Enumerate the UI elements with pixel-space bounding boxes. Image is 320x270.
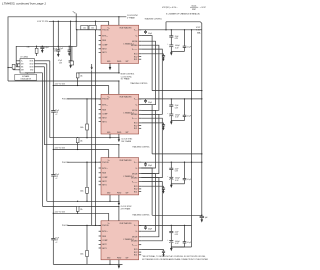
capacitor CRC ch1	[163, 54, 165, 56]
ground C30	[201, 219, 204, 222]
svg-text:0.1µF: 0.1µF	[187, 46, 191, 48]
junction dots U1 vout wire	[171, 29, 172, 30]
svg-text:SET1: SET1	[102, 185, 106, 187]
svg-text:NOT NEEDED FOR LOW IMPEDANCE P: NOT NEEDED FOR LOW IMPEDANCE PLANE CONNE…	[142, 258, 208, 261]
wire U1 GND stub	[109, 63, 111, 67]
junction dot R22 rail	[77, 149, 78, 150]
ground CRC ch4	[162, 254, 164, 257]
wire U2 left pin stubs	[99, 98, 101, 100]
wire R13 top	[71, 46, 73, 61]
svg-text:TRACKING CONTROL: TRACKING CONTROL	[145, 18, 163, 21]
wire cascade d ch3	[141, 182, 162, 241]
svg-text:RC2: RC2	[134, 56, 138, 58]
svg-text:SET1: SET1	[102, 121, 106, 123]
svg-text:VOUT: VOUT	[134, 162, 138, 164]
resistor R12 body	[36, 46, 38, 48]
capacitor COUTB ch2	[169, 113, 173, 115]
svg-text:RSET: RSET	[192, 9, 196, 11]
svg-text:SET2: SET2	[102, 181, 106, 183]
svg-text:25V: 25V	[59, 62, 63, 64]
svg-text:22µF: 22µF	[175, 232, 179, 234]
wire cascade c ch3	[141, 178, 159, 237]
svg-text:VB: VB	[135, 231, 137, 233]
wire U1 VOUT to bus	[139, 29, 202, 31]
wire cascade c ch2	[141, 114, 159, 173]
junction dots on VIN bus	[53, 21, 54, 22]
svg-text:SET2: SET2	[102, 244, 106, 246]
capacitor COUTC ch2	[184, 99, 186, 115]
junction dot sense ch3	[201, 153, 202, 154]
junction dot R23 rail	[77, 213, 78, 214]
wire U4 right pin stubs	[139, 224, 142, 226]
junction dots PGOOD ch2	[95, 98, 96, 99]
junction dots clock line ch4	[86, 201, 87, 202]
capacitor CRC ch4	[163, 249, 165, 251]
ground U1	[109, 67, 112, 70]
junction dot ch1 sense riser	[165, 29, 166, 30]
wire clock riser ch3	[49, 61, 51, 138]
resistor R1b 10k	[89, 25, 96, 29]
svg-text:SET1: SET1	[102, 52, 106, 54]
capacitor COUTC ch3	[184, 162, 186, 178]
capacitor COUTA ch1	[170, 30, 172, 36]
svg-text:RC2: RC2	[134, 189, 138, 191]
svg-text:6.3V: 6.3V	[175, 107, 179, 109]
svg-text:MODE0: MODE0	[131, 114, 137, 116]
junction dot track line ch3	[118, 144, 119, 145]
svg-text:VIN: VIN	[73, 12, 76, 15]
svg-text:SW*: SW*	[126, 132, 129, 134]
capacitor COUTB ch3	[169, 176, 173, 178]
svg-text:SW*: SW*	[126, 258, 129, 260]
capacitor COUTA ch3	[170, 162, 172, 168]
svg-text:RC2: RC2	[134, 252, 138, 254]
svg-text:RC3: RC3	[134, 186, 138, 188]
svg-text:10k: 10k	[83, 27, 86, 29]
wire VOSNS bus x191.5	[191, 30, 193, 247]
capacitor CIN ch4 on riser	[51, 238, 56, 241]
wire input rail ch3	[53, 149, 108, 151]
svg-text:TRACKING CONTROL: TRACKING CONTROL	[132, 213, 150, 216]
junction dot R12	[36, 46, 37, 47]
svg-text:22µF: 22µF	[55, 174, 59, 176]
svg-text:VB: VB	[135, 105, 137, 107]
svg-text:TRACKING CONTROL: TRACKING CONTROL	[132, 145, 150, 148]
ground U3	[118, 203, 120, 206]
svg-text:25V: 25V	[55, 112, 59, 114]
junction dot clock line ch1	[118, 16, 119, 17]
wire U3 GND stub	[109, 195, 111, 201]
wire U3 left pin stubs	[99, 161, 101, 163]
wire U5 V+ loop	[16, 46, 77, 67]
svg-text:22µF: 22µF	[55, 238, 59, 240]
wire COUTC join ch4	[171, 246, 184, 248]
svg-text:OUT2: OUT2	[29, 63, 33, 65]
svg-text:VOUT: VOUT	[134, 30, 138, 32]
capacitor C100p ch2	[145, 99, 147, 101]
wire VOUT bus right	[166, 22, 202, 216]
svg-text:+: +	[167, 44, 168, 46]
resistor R23 15k ch4	[76, 206, 79, 211]
svg-text:0° PHASE: 0° PHASE	[127, 16, 136, 19]
svg-text:460µF: 460µF	[175, 114, 180, 116]
svg-text:RC1: RC1	[134, 191, 138, 193]
svg-text:MODE0: MODE0	[131, 177, 137, 179]
wire cascade b ch2	[141, 110, 155, 168]
svg-text:VB: VB	[135, 35, 137, 37]
wire cascade a ch1	[141, 36, 152, 91]
svg-text:SET2: SET2	[102, 49, 106, 51]
wire U5 OUT1 to ch3 clock riser	[34, 60, 49, 62]
svg-text:MODE: MODE	[132, 110, 138, 112]
wire V+ vertical from PGOOD line	[76, 30, 78, 47]
resistor R21 15k ch2	[76, 73, 79, 78]
capacitor CIN ch2 on riser	[51, 110, 56, 113]
svg-text:6.3V: 6.3V	[175, 171, 179, 173]
svg-text:+: +	[167, 176, 168, 178]
svg-text:180° PHASE: 180° PHASE	[121, 140, 132, 143]
svg-text:N = NUMBER OF CHANNELS IN PARA: N = NUMBER OF CHANNELS IN PARALLEL	[166, 13, 200, 16]
resistor R1a 10k	[81, 25, 88, 29]
svg-text:RC2: RC2	[134, 125, 138, 127]
svg-text:PGOOD: PGOOD	[102, 30, 109, 32]
svg-text:+: +	[167, 239, 168, 241]
svg-text:COMP: COMP	[102, 240, 108, 242]
svg-text:RC1: RC1	[134, 59, 138, 61]
svg-text:10k: 10k	[91, 27, 94, 29]
svg-text:100k: 100k	[80, 190, 84, 192]
svg-text:COMP: COMP	[102, 45, 108, 47]
svg-text:100pF: 100pF	[148, 33, 152, 35]
svg-text:3.4k: 3.4k	[27, 46, 30, 48]
svg-text:VOUT: VOUT	[196, 27, 201, 29]
svg-text:270° PHASE: 270° PHASE	[121, 207, 132, 210]
capacitor C1 input ch1	[57, 21, 59, 50]
capacitor COUTC ch1	[184, 30, 186, 46]
wire R11 side to x8 bus	[8, 67, 12, 69]
svg-text:22µF: 22µF	[175, 168, 179, 170]
capacitor COUTB ch4	[169, 240, 173, 242]
junction dot sense ch2	[201, 90, 202, 91]
junction dots on V+ loop	[58, 46, 59, 47]
wire track riser ch4	[42, 73, 44, 207]
junction dot track line ch4	[118, 206, 119, 207]
junction dot ch2 clock drop	[118, 80, 119, 81]
wire cascade a ch3	[141, 168, 152, 215]
ground U4	[118, 266, 121, 269]
svg-text:RC3: RC3	[134, 249, 138, 251]
wire R32 bottom	[86, 193, 88, 201]
junction dots U4 vout wire	[171, 225, 172, 226]
svg-text:100k: 100k	[80, 127, 84, 129]
capacitor CRC ch3	[163, 186, 165, 188]
svg-text:100pF: 100pF	[148, 165, 152, 167]
wire U5 OUT2 to ch4 clock riser	[34, 63, 46, 65]
svg-text:V+: V+	[21, 60, 23, 62]
junction dot R31 top	[86, 98, 87, 99]
wire U1 TRACK stub	[118, 17, 120, 25]
wire U2 PGND stub	[118, 134, 120, 139]
wire mode control ch1	[118, 63, 120, 73]
junction dot R32 top	[86, 162, 87, 163]
svg-text:VOUT(DC) = 0.5V •: VOUT(DC) = 0.5V •	[162, 7, 178, 9]
svg-text:OSCILLATOR: OSCILLATOR	[20, 77, 31, 80]
ground for C1	[57, 54, 60, 57]
junction dot R11	[7, 67, 8, 68]
wire U3 VIN stub	[108, 150, 110, 158]
svg-text:PGOOD: PGOOD	[102, 99, 109, 101]
svg-text:0.1µF: 0.1µF	[187, 242, 191, 244]
svg-text:6.3V: 6.3V	[175, 180, 179, 182]
wire track riser ch3	[43, 67, 45, 145]
wire COUTC join ch1	[171, 50, 184, 52]
ground COUT ch3	[170, 185, 173, 188]
svg-text:VOUTLCL: VOUTLCL	[132, 118, 138, 120]
wire ch1 PGOOD line from VIN arrow	[75, 21, 77, 30]
wire PGOOD ch4	[68, 224, 101, 226]
resistor R32 100k ch3	[86, 162, 88, 187]
junction dot U2 gnd	[109, 137, 110, 138]
junction dots U2 vout wire	[171, 98, 172, 99]
svg-text:PGOOD: PGOOD	[102, 225, 109, 227]
capacitor C100p ch4	[145, 225, 147, 227]
svg-text:VOUTLCL: VOUTLCL	[132, 181, 138, 183]
capacitor C2 input ch1	[70, 21, 72, 61]
wire cascade d ch1	[141, 49, 162, 114]
junction dots PGOOD ch4	[95, 225, 96, 226]
wire RC row ch4	[141, 248, 163, 250]
svg-text:6.3V: 6.3V	[175, 117, 179, 119]
wire cascade a ch2	[141, 105, 152, 154]
svg-text:RC1: RC1	[134, 128, 138, 130]
wire U5 DIV MS strap	[17, 64, 19, 67]
svg-text:460µF: 460µF	[175, 45, 180, 47]
svg-text:0.1µF: 0.1µF	[45, 47, 49, 49]
wire R31 bottom	[86, 130, 88, 138]
svg-text:VB: VB	[135, 168, 137, 170]
svg-text:25V: 25V	[55, 240, 59, 242]
capacitor C3 small	[68, 46, 70, 50]
svg-text:22µF: 22µF	[55, 110, 59, 112]
svg-text:PGOOD: PGOOD	[102, 162, 109, 164]
svg-text:+: +	[167, 113, 168, 115]
junction dot rail ch2	[53, 85, 54, 86]
svg-text:MODE: MODE	[132, 41, 138, 43]
svg-text:VOUTLCL: VOUTLCL	[132, 245, 138, 247]
op-amp U1 LTM4653 module body	[101, 25, 139, 63]
junction dot U3 gnd	[109, 201, 110, 202]
wire cascade b ch3	[141, 174, 155, 232]
wire U1 VIN stub	[108, 21, 110, 25]
wire U2 VIN stub	[108, 86, 110, 95]
svg-text:22µF: 22µF	[175, 105, 179, 107]
capacitor CRC ch2	[163, 123, 165, 125]
ground CRC ch1	[162, 59, 164, 62]
svg-text:RC3: RC3	[134, 54, 138, 56]
svg-text:460µF: 460µF	[175, 241, 180, 243]
svg-text:INTVCC: INTVCC	[102, 105, 108, 107]
svg-text:90° PHASE: 90° PHASE	[121, 78, 131, 81]
svg-text:SW*: SW*	[126, 61, 129, 63]
svg-text:4.7µF: 4.7µF	[58, 60, 62, 62]
wire COUTC join ch3	[171, 183, 184, 185]
svg-text:MODE CONTROL: MODE CONTROL	[121, 73, 135, 75]
wire U3 TRACK stub	[118, 145, 120, 158]
svg-text:INTVCC: INTVCC	[102, 168, 108, 170]
svg-text:VOUTLCL: VOUTLCL	[132, 49, 138, 51]
wire clock riser ch4	[46, 64, 48, 202]
wire U2 TRACK stub	[118, 81, 120, 94]
ground COUT ch1	[170, 52, 173, 55]
svg-text:15k: 15k	[80, 76, 83, 78]
svg-text:6.3V: 6.3V	[175, 234, 179, 236]
wire U5 GND bottom route	[26, 73, 28, 74]
capacitor C100p ch3	[145, 162, 147, 164]
wire sense line ch2	[152, 90, 202, 92]
wire RC row ch3	[141, 185, 163, 187]
wire U4 GND stub	[109, 260, 111, 265]
svg-text:TRACKING CONTROL: TRACKING CONTROL	[130, 82, 148, 85]
wire U2 VOUT to bus	[139, 98, 202, 100]
svg-text:100pF: 100pF	[148, 102, 152, 104]
capacitor C100p ch1	[145, 30, 147, 32]
ground COUT ch4	[170, 248, 173, 251]
ground for C3	[68, 53, 70, 56]
wire RC row ch2	[141, 122, 163, 124]
ground CRC ch2	[162, 128, 164, 131]
wire track line ch4	[43, 205, 119, 207]
svg-text:RC3: RC3	[134, 123, 138, 125]
svg-text:15k: 15k	[80, 140, 83, 142]
wire clock line channel 1 with left loop	[8, 17, 126, 81]
junction dot bottom bus	[109, 264, 110, 265]
wire U4 TRACK stub	[118, 206, 120, 220]
wire cascade c ch1	[141, 45, 159, 110]
wire clock line ch3	[50, 137, 119, 139]
svg-text:INTVCC: INTVCC	[102, 231, 108, 233]
wire U2 GND stub	[109, 134, 111, 138]
op-amp U5 LTC6902 body	[20, 59, 34, 74]
capacitor COUTC ch4	[184, 225, 186, 241]
wire input rail ch2	[53, 85, 108, 87]
wire input rail ch4	[53, 212, 108, 214]
wire sense line ch4	[152, 214, 202, 216]
wire clock line ch4	[47, 200, 119, 202]
svg-text:15k: 15k	[80, 209, 83, 211]
svg-text:22µF: 22µF	[175, 36, 179, 38]
junction dot rail ch4	[53, 213, 54, 214]
ground CRC ch3	[162, 191, 164, 194]
wire U1 left pin stubs	[99, 29, 101, 31]
wire PGOOD bus	[95, 21, 97, 225]
wire U4 PGND stub	[118, 260, 120, 266]
wire PGOOD ch2	[68, 98, 101, 100]
capacitor C5 riser ch2	[51, 110, 55, 112]
wire clock line ch2	[8, 80, 119, 82]
wire top VIN bus	[49, 20, 109, 22]
svg-text:36A: 36A	[197, 32, 201, 35]
wire VIN riser	[52, 21, 54, 264]
svg-text:SET2: SET2	[102, 118, 106, 120]
svg-text:MODE: MODE	[132, 173, 138, 175]
wire U5 SET pin to resistor	[14, 68, 18, 71]
svg-text:DIV: DIV	[21, 63, 24, 65]
wire sense line ch3	[152, 153, 202, 155]
svg-text:LTM4653, continued from page 1: LTM4653, continued from page 1	[2, 2, 46, 6]
junction dots ch1 pgood line	[95, 29, 96, 30]
junction dots PGOOD ch3	[95, 162, 96, 163]
svg-text:6.3V: 6.3V	[175, 38, 179, 40]
resistor R33 100k ch4	[86, 225, 88, 250]
svg-text:MS: MS	[21, 66, 23, 68]
wire U4 VOUT wire	[139, 224, 192, 226]
capacitor COUTB ch1	[169, 44, 173, 46]
svg-text:1µF: 1µF	[205, 217, 208, 219]
ground COUT ch2	[170, 122, 173, 125]
svg-text:0.1µF: 0.1µF	[187, 116, 191, 118]
wire U2 right pin stubs	[139, 98, 142, 100]
svg-text:RC1: RC1	[134, 255, 138, 257]
svg-text:*SW OPTIONAL, TO DEVICE NOT AC: *SW OPTIONAL, TO DEVICE NOT AC COUPLING.…	[142, 255, 206, 258]
wire R33 bottom	[86, 257, 88, 265]
svg-text:0.1µF: 0.1µF	[187, 179, 191, 181]
op-amp U3 LTM4653 module body	[101, 158, 139, 195]
resistor R22 15k ch3	[76, 138, 79, 143]
capacitor C30 1uF bottom	[201, 215, 203, 217]
capacitor COUTA ch2	[170, 99, 172, 105]
junction dot rail ch3	[53, 149, 54, 150]
junction dot R33 top	[86, 225, 87, 226]
wire U5 left pins stubs	[18, 60, 20, 62]
svg-text:SET: SET	[21, 69, 24, 71]
junction dot C30	[201, 215, 202, 216]
ground for C20	[41, 50, 44, 53]
wire U3 right pin stubs	[139, 161, 142, 163]
svg-text:460µF: 460µF	[175, 178, 180, 180]
svg-text:6.3V: 6.3V	[175, 243, 179, 245]
wire VIN arrow stub	[75, 13, 77, 21]
resistor R31 100k ch2	[86, 99, 88, 124]
wire U3 PGND stub	[118, 195, 120, 203]
wire RC row ch1	[141, 53, 163, 55]
svg-text:100k: 100k	[80, 254, 84, 256]
svg-text:VOUT: VOUT	[134, 225, 138, 227]
wire U1 right pin stubs	[139, 29, 142, 31]
wire PGOOD ch3	[68, 161, 101, 163]
svg-text:+ VOUT: + VOUT	[200, 7, 206, 9]
svg-text:OUT3: OUT3	[29, 66, 33, 68]
wire U5 OUT3 to ch3 track riser	[34, 66, 44, 68]
junction dots U3 vout wire	[171, 162, 172, 163]
wire ch1 sense riser	[165, 22, 167, 30]
op-amp U4 LTM4653 module body	[101, 221, 139, 260]
svg-text:MODE0: MODE0	[131, 45, 137, 47]
junction dot sense ch4	[201, 215, 202, 216]
op-amp U2 LTM4653 module body	[101, 94, 139, 134]
svg-text:COMP: COMP	[102, 177, 108, 179]
svg-text:INTVCC: INTVCC	[102, 35, 108, 37]
wire bottom ground bus	[53, 263, 122, 265]
wire cascade d ch2	[141, 118, 162, 177]
svg-text:4.5V TO 15V: 4.5V TO 15V	[37, 21, 49, 23]
wire cascade b ch1	[141, 41, 155, 104]
wire U4 VIN stub	[108, 213, 110, 221]
svg-text:MODE: MODE	[132, 237, 138, 239]
svg-text:LTC6902: LTC6902	[20, 56, 28, 58]
capacitor COUTA ch4	[170, 225, 172, 231]
op-amp U5 caption box	[15, 74, 37, 80]
svg-text:0.1µF: 0.1µF	[59, 48, 63, 50]
